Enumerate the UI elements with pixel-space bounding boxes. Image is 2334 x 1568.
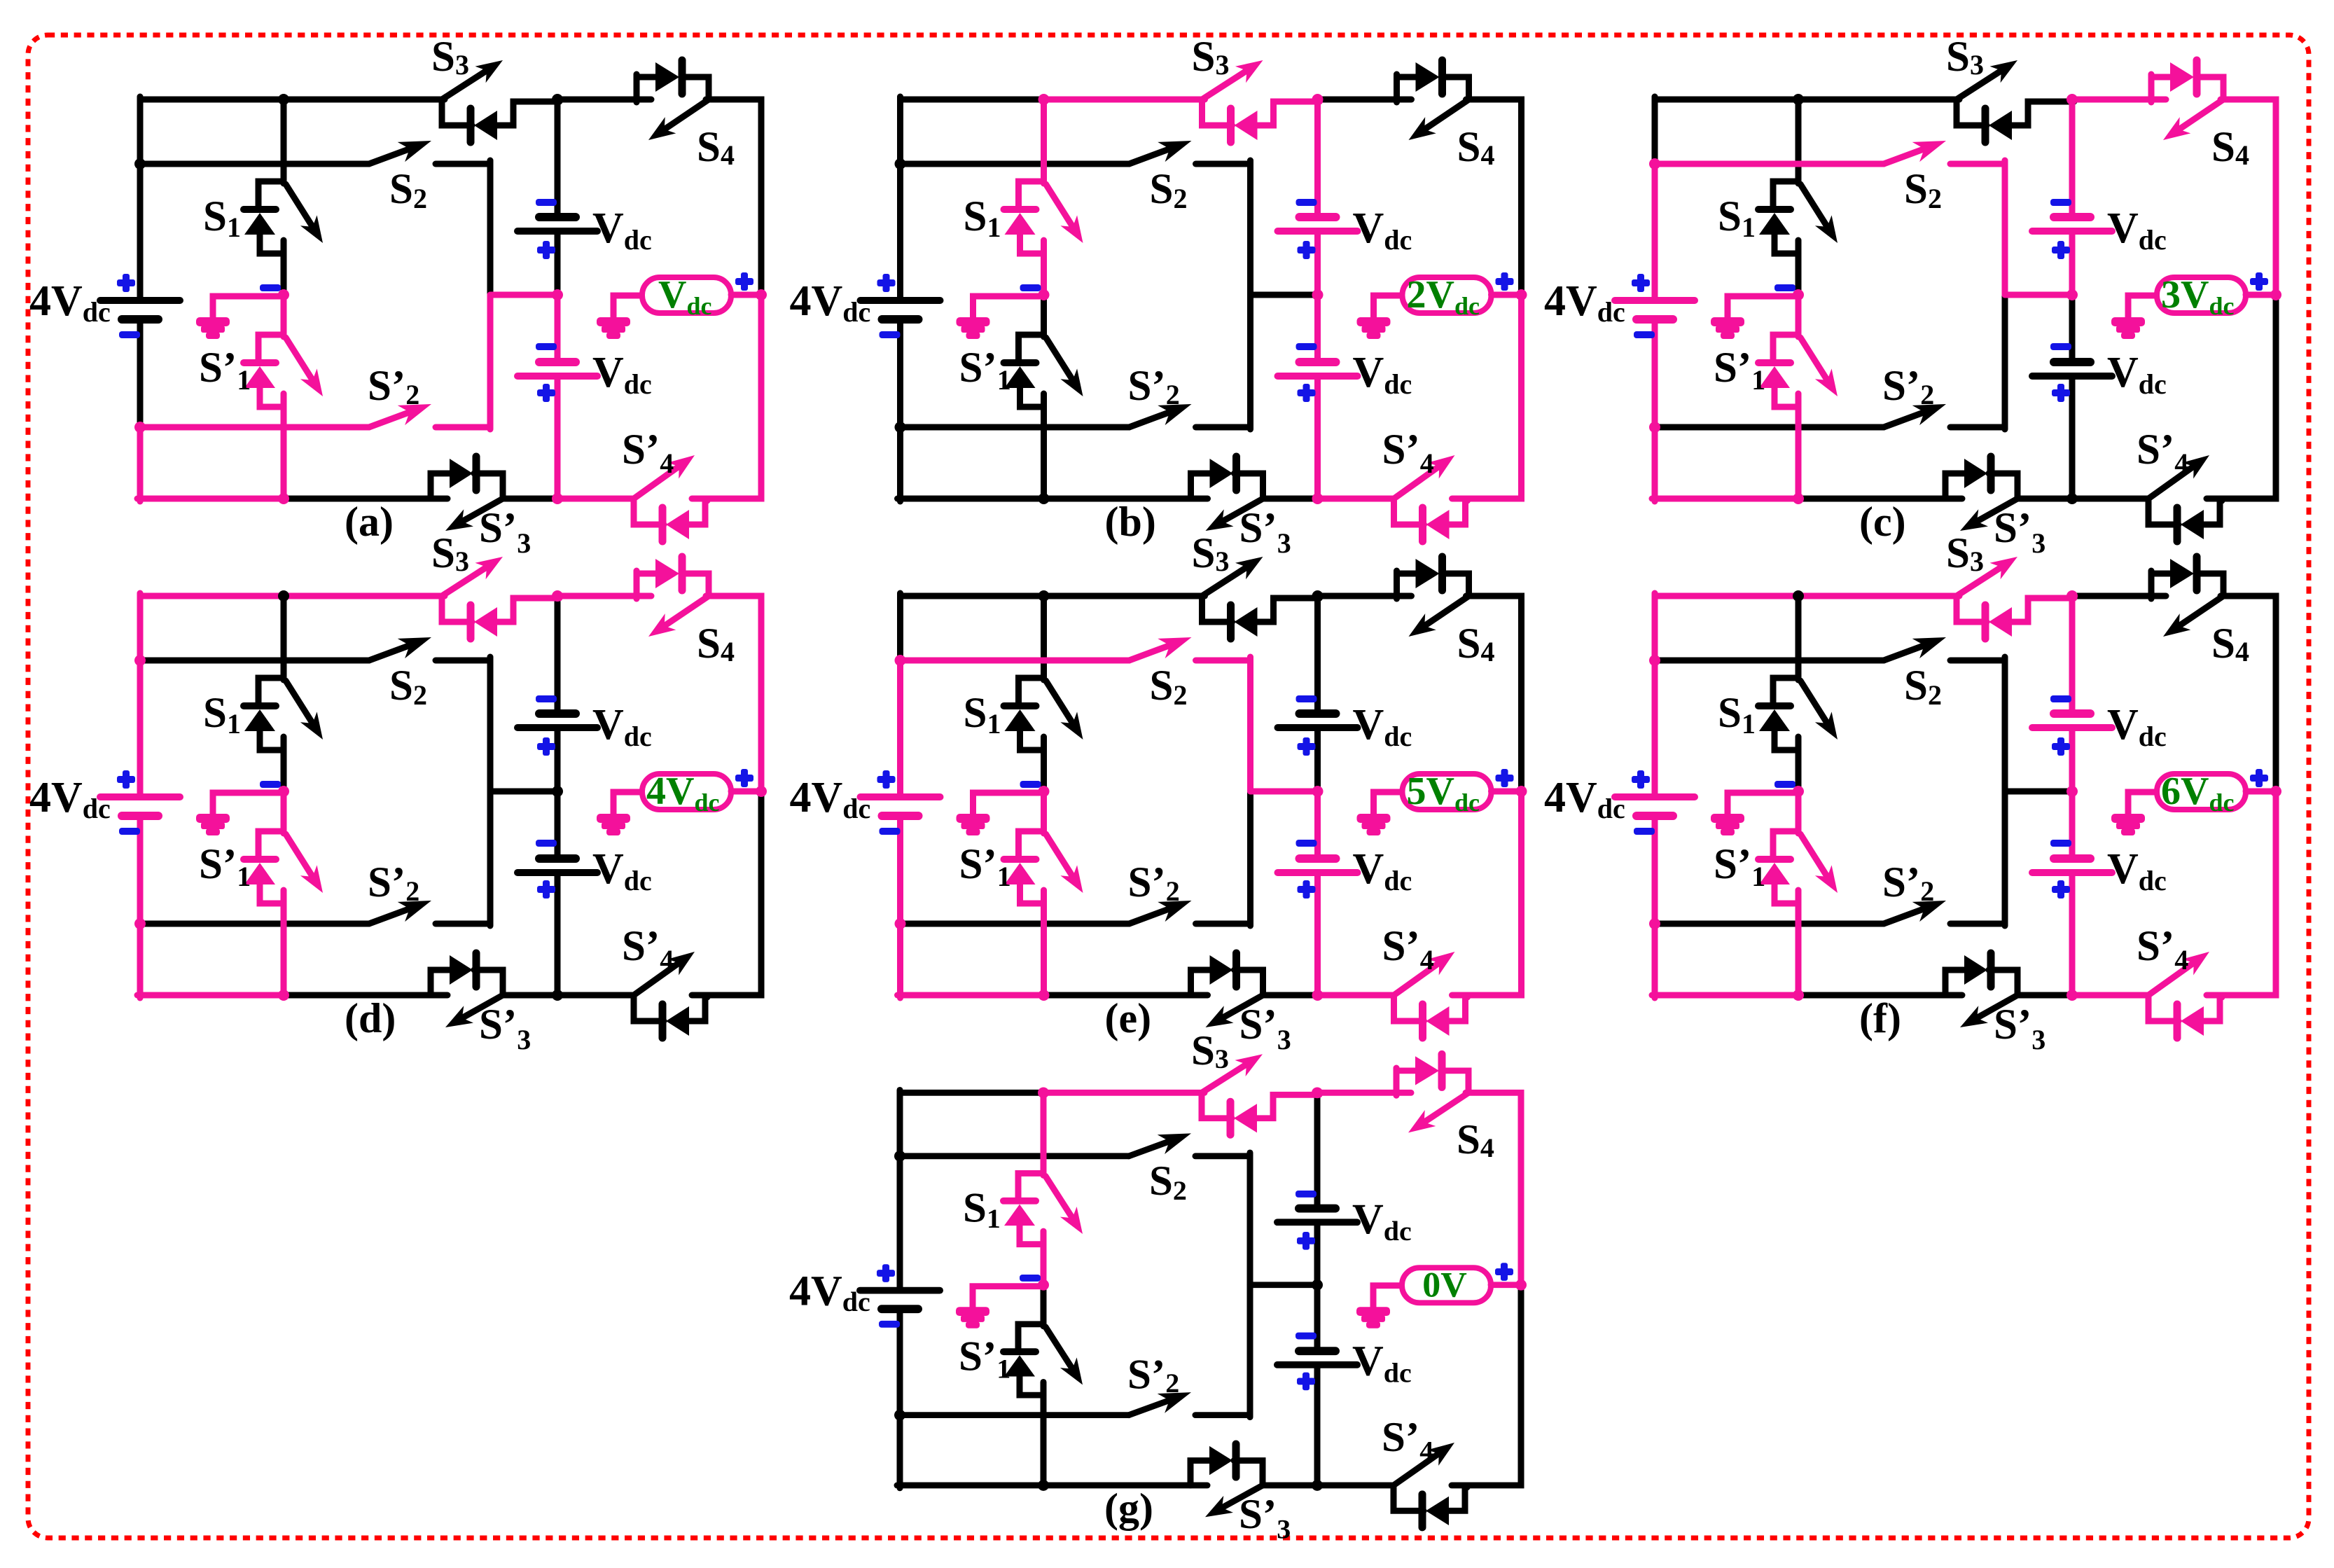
wire battery to S'2 rail (c) bbox=[1652, 319, 1658, 427]
wire bottom rail mid (g) bbox=[1043, 1482, 1207, 1488]
wire bottom rail right (b) bbox=[1318, 496, 1394, 502]
wire right rail top (d) bbox=[706, 596, 761, 791]
node output minus (a) bbox=[278, 289, 289, 300]
wire node to ground (a) bbox=[213, 296, 284, 318]
minus marker lower Vdc (f) bbox=[2050, 840, 2071, 847]
node bottom S'1-column junction (a) bbox=[278, 493, 289, 504]
transistor S1 (d) bbox=[244, 678, 323, 750]
wire S'2 contact rise (g) bbox=[1247, 1285, 1253, 1417]
minus marker battery 4Vdc (a) bbox=[119, 331, 140, 338]
node S'2 rail left junction (b) bbox=[895, 422, 906, 433]
node bottom S'1-column junction (f) bbox=[1793, 990, 1804, 1001]
wire lower battery to bottom (d) bbox=[555, 873, 561, 995]
node mid battery junction (b) bbox=[1312, 289, 1324, 300]
switch S'4 (g) bbox=[1394, 1443, 1467, 1527]
switch S'4 (e) bbox=[1394, 952, 1468, 1038]
wire S'3 to battery column (a) bbox=[503, 496, 557, 502]
wire node to ground (b) bbox=[973, 296, 1044, 318]
node S'2 rail left junction (c) bbox=[1649, 422, 1660, 433]
minus marker upper Vdc (g) bbox=[1295, 1191, 1317, 1198]
wire S2 contact drop (e) bbox=[1247, 657, 1253, 791]
battery Vdc upper (b) bbox=[1278, 217, 1358, 231]
wire left rail lower (d) bbox=[137, 924, 144, 998]
wire battery to S'2 rail (g) bbox=[897, 1309, 903, 1415]
switch S'3 (b) bbox=[1191, 457, 1263, 531]
node output plus (a) bbox=[756, 289, 767, 300]
wire bottom rail left (c) bbox=[1652, 496, 1798, 502]
wire upper battery to mid node (c) bbox=[2069, 231, 2076, 295]
wire right rail bottom (b) bbox=[1452, 295, 1522, 499]
node output plus (b) bbox=[1516, 289, 1527, 300]
node bottom S'1-column junction (c) bbox=[1793, 493, 1804, 504]
wire left rail lower (e) bbox=[897, 924, 903, 998]
wire upper battery to mid node (d) bbox=[555, 728, 561, 791]
svg-text:0V: 0V bbox=[1422, 1265, 1467, 1305]
wire mid node to lower battery (g) bbox=[1314, 1285, 1321, 1351]
svg-text:(c): (c) bbox=[1859, 499, 1906, 545]
wire left rail lower (c) bbox=[1652, 427, 1658, 501]
wire bottom rail left (d) bbox=[137, 992, 284, 999]
plus marker battery 4Vdc (d) bbox=[117, 776, 135, 783]
switch S'2 (b) bbox=[901, 404, 1251, 427]
svg-text:(e): (e) bbox=[1105, 995, 1152, 1041]
switch S'3 (e) bbox=[1191, 953, 1263, 1027]
node top S1-column junction (a) bbox=[278, 94, 289, 105]
node S2 rail left junction (b) bbox=[895, 158, 906, 169]
plus marker lower Vdc (b) bbox=[1298, 389, 1316, 396]
wire upper battery to mid node (g) bbox=[1314, 1222, 1321, 1284]
transistor S'1 (b) bbox=[1004, 335, 1083, 407]
plus marker upper Vdc (d) bbox=[537, 743, 555, 750]
wire bottom rail left (b) bbox=[898, 496, 1044, 502]
wire left rail to battery (d) bbox=[137, 660, 144, 797]
wire battery column upper (a) bbox=[555, 99, 561, 217]
wire lower battery to bottom (g) bbox=[1314, 1365, 1321, 1485]
output voltage box 4Vdc (d) bbox=[642, 770, 731, 817]
battery 4Vdc (a) bbox=[100, 300, 180, 319]
plus marker battery 4Vdc (c) bbox=[1632, 279, 1650, 286]
plus marker output (e) bbox=[1496, 775, 1514, 782]
wire battery column upper (b) bbox=[1314, 99, 1321, 217]
wire mid node to lower battery (e) bbox=[1314, 791, 1321, 859]
wire battery to S'2 rail (d) bbox=[137, 816, 144, 924]
wire right rail top (b) bbox=[1466, 99, 1522, 295]
switch S'4 (b) bbox=[1394, 455, 1468, 541]
minus marker node (b) bbox=[1020, 284, 1041, 291]
battery Vdc upper (e) bbox=[1278, 714, 1358, 728]
switch S'2 (d) bbox=[140, 901, 490, 924]
switch S'3 (a) bbox=[431, 457, 503, 531]
wire S1 column top (b) bbox=[1041, 99, 1047, 183]
plus marker battery 4Vdc (b) bbox=[877, 279, 896, 286]
switch S2 (g) bbox=[900, 1133, 1250, 1156]
switch S4 (a) bbox=[557, 60, 709, 140]
wire right rail top (a) bbox=[706, 99, 761, 295]
wire S1 to node (g) bbox=[1041, 1244, 1047, 1285]
wire bottom rail left (g) bbox=[897, 1482, 1043, 1488]
minus marker battery 4Vdc (e) bbox=[880, 828, 901, 835]
node bottom S'1-column junction (b) bbox=[1039, 493, 1050, 504]
plus marker battery 4Vdc (a) bbox=[117, 279, 135, 286]
plus marker output (d) bbox=[735, 775, 753, 782]
node output minus (e) bbox=[1039, 786, 1050, 797]
plus marker output (a) bbox=[735, 278, 753, 285]
node mid battery junction (d) bbox=[552, 786, 563, 797]
plus marker battery 4Vdc (f) bbox=[1632, 776, 1650, 783]
switch S2 (f) bbox=[1655, 637, 2005, 660]
wire S2 contact drop (d) bbox=[487, 657, 494, 791]
switch S'2 (c) bbox=[1655, 404, 2005, 427]
battery 4Vdc (d) bbox=[100, 797, 180, 816]
wire bottom rail left (e) bbox=[898, 992, 1044, 999]
battery 4Vdc (g) bbox=[860, 1291, 940, 1310]
wire right rail top (c) bbox=[2221, 99, 2276, 295]
node S'2 rail left junction (f) bbox=[1649, 918, 1660, 929]
wire right rail bottom (a) bbox=[692, 295, 761, 499]
wire battery column upper (c) bbox=[2069, 99, 2076, 217]
plus marker output (c) bbox=[2250, 278, 2268, 285]
ground output (a) bbox=[597, 317, 630, 339]
wire battery to S'2 rail (a) bbox=[137, 319, 144, 427]
wire S'3 to battery column (g) bbox=[1263, 1482, 1317, 1488]
wire S'3 to battery column (f) bbox=[2017, 992, 2072, 999]
minus marker upper Vdc (f) bbox=[2050, 695, 2071, 702]
wire right rail top (e) bbox=[1466, 596, 1522, 791]
wire S1 to node (c) bbox=[1795, 254, 1802, 295]
switch S'4 (d) bbox=[634, 952, 707, 1038]
switch S3 (b) bbox=[1202, 60, 1320, 142]
wire mid node to lower battery (f) bbox=[2069, 791, 2076, 859]
minus marker upper Vdc (c) bbox=[2050, 199, 2071, 206]
wire box to plus node (a) bbox=[731, 292, 761, 298]
wire S'3 to battery column (e) bbox=[1263, 992, 1318, 999]
wire left rail to battery (f) bbox=[1652, 660, 1658, 797]
wire S'1 column top (a) bbox=[281, 295, 287, 337]
wire upper battery to mid node (a) bbox=[555, 231, 561, 295]
switch S4 (d) bbox=[557, 557, 709, 637]
node S2 rail left junction (c) bbox=[1649, 158, 1660, 169]
switch S'3 (g) bbox=[1190, 1444, 1263, 1517]
minus marker upper Vdc (d) bbox=[536, 695, 557, 702]
wire lower battery to bottom (f) bbox=[2069, 873, 2076, 995]
wire mid rail to battery column (a) bbox=[490, 292, 557, 298]
wire bottom rail mid (e) bbox=[1044, 992, 1208, 999]
wire S2 contact drop (f) bbox=[2002, 657, 2008, 791]
node mid battery junction (f) bbox=[2066, 786, 2078, 797]
node bottom battery-column junction (d) bbox=[552, 990, 563, 1001]
wire left rail lower (f) bbox=[1652, 924, 1658, 998]
minus marker node (e) bbox=[1020, 781, 1041, 788]
wire bottom rail mid (b) bbox=[1044, 496, 1208, 502]
node S2 rail left junction (e) bbox=[895, 655, 906, 666]
plus marker battery 4Vdc (e) bbox=[877, 776, 896, 783]
wire mid node to lower battery (c) bbox=[2069, 295, 2076, 362]
switch S2 (d) bbox=[140, 637, 490, 660]
switch S2 (c) bbox=[1655, 141, 2005, 164]
wire top rail left (g) bbox=[900, 1090, 1043, 1096]
battery Vdc upper (d) bbox=[517, 714, 597, 728]
wire bottom rail right (g) bbox=[1317, 1482, 1394, 1488]
wire right rail bottom (g) bbox=[1452, 1285, 1521, 1485]
switch S3 (g) bbox=[1202, 1054, 1319, 1135]
output voltage box 5Vdc (e) bbox=[1403, 770, 1492, 817]
wire box to plus node (c) bbox=[2246, 292, 2276, 298]
wire output box to ground (c) bbox=[2128, 296, 2157, 318]
wire bottom rail right (e) bbox=[1318, 992, 1394, 999]
wire right rail bottom (e) bbox=[1452, 791, 1522, 995]
wire right rail top (f) bbox=[2221, 596, 2276, 791]
switch S'3 (f) bbox=[1945, 953, 2017, 1027]
plus marker lower Vdc (c) bbox=[2052, 389, 2070, 396]
wire mid rail to battery column (d) bbox=[490, 789, 557, 795]
minus marker node (d) bbox=[260, 781, 281, 788]
plus marker battery 4Vdc (g) bbox=[877, 1270, 895, 1277]
wire top rail left (a) bbox=[140, 97, 284, 103]
switch S'4 (c) bbox=[2148, 455, 2222, 541]
wire bottom rail left (f) bbox=[1652, 992, 1798, 999]
wire S'1 column top (e) bbox=[1041, 791, 1047, 833]
wire S2 contact drop (b) bbox=[1247, 160, 1253, 295]
minus marker battery 4Vdc (g) bbox=[879, 1321, 900, 1328]
wire S2 contact drop (c) bbox=[2002, 160, 2008, 295]
node top battery-column junction (d) bbox=[552, 590, 563, 602]
node top battery-column junction (g) bbox=[1312, 1087, 1323, 1098]
wire battery column upper (g) bbox=[1314, 1092, 1321, 1208]
battery 4Vdc (b) bbox=[861, 300, 940, 319]
node bottom battery-column junction (c) bbox=[2066, 493, 2078, 504]
ground left (e) bbox=[957, 814, 990, 835]
node mid battery junction (c) bbox=[2066, 289, 2078, 300]
switch S'2 (f) bbox=[1655, 901, 2005, 924]
wire lower battery to bottom (a) bbox=[555, 376, 561, 499]
minus marker upper Vdc (b) bbox=[1296, 199, 1317, 206]
node S2 rail left junction (f) bbox=[1649, 655, 1660, 666]
wire top rail mid (a) bbox=[284, 97, 445, 103]
node S'2 rail left junction (e) bbox=[895, 918, 906, 929]
ground output (c) bbox=[2111, 317, 2145, 339]
wire S1 column top (a) bbox=[281, 99, 287, 183]
wire mid rail to battery column (f) bbox=[2005, 789, 2072, 795]
wire top rail left (d) bbox=[140, 593, 284, 599]
transistor S1 (g) bbox=[1003, 1173, 1083, 1244]
wire S'1 column top (c) bbox=[1795, 295, 1802, 337]
plus marker upper Vdc (g) bbox=[1297, 1237, 1315, 1244]
wire S'2 contact rise (d) bbox=[487, 791, 494, 926]
wire left rail lower (a) bbox=[137, 427, 144, 501]
minus marker lower Vdc (b) bbox=[1296, 343, 1317, 350]
wire left rail upper (f) bbox=[1652, 593, 1658, 660]
transistor S1 (b) bbox=[1004, 181, 1083, 254]
wire top rail mid (d) bbox=[284, 593, 445, 599]
wire node to ground (d) bbox=[213, 793, 284, 814]
node S2 rail left junction (d) bbox=[134, 655, 146, 666]
wire left rail to battery (c) bbox=[1652, 164, 1658, 300]
wire box to plus node (b) bbox=[1492, 292, 1522, 298]
wire left rail lower (b) bbox=[897, 427, 903, 501]
wire S1 column top (d) bbox=[281, 596, 287, 680]
wire upper battery to mid node (e) bbox=[1314, 728, 1321, 791]
ground output (d) bbox=[597, 814, 630, 835]
wire mid node to lower battery (d) bbox=[555, 791, 561, 859]
wire S'1 to bottom rail (a) bbox=[281, 407, 287, 499]
svg-text:(d): (d) bbox=[345, 995, 396, 1041]
switch S3 (f) bbox=[1957, 557, 2074, 639]
wire mid rail to battery column (b) bbox=[1251, 292, 1318, 298]
wire node to ground (g) bbox=[973, 1286, 1043, 1307]
wire battery to S'2 rail (e) bbox=[897, 816, 903, 924]
ground left (c) bbox=[1711, 317, 1744, 339]
wire mid rail to battery column (e) bbox=[1251, 789, 1318, 795]
node S2 rail left junction (a) bbox=[134, 158, 146, 169]
transistor S'1 (f) bbox=[1758, 831, 1838, 903]
node S2 rail left junction (g) bbox=[894, 1151, 905, 1162]
wire battery column upper (d) bbox=[555, 596, 561, 714]
switch S'2 (a) bbox=[140, 404, 490, 427]
wire top rail mid (g) bbox=[1043, 1090, 1204, 1096]
node output plus (c) bbox=[2270, 289, 2281, 300]
ground output (g) bbox=[1356, 1307, 1390, 1328]
wire S'1 column top (g) bbox=[1041, 1285, 1047, 1326]
battery Vdc upper (c) bbox=[2032, 217, 2112, 231]
battery 4Vdc (c) bbox=[1615, 300, 1695, 319]
node top battery-column junction (f) bbox=[2066, 590, 2078, 602]
wire mid node to lower battery (a) bbox=[555, 295, 561, 362]
wire top rail left (f) bbox=[1655, 593, 1798, 599]
svg-text:(f): (f) bbox=[1859, 995, 1901, 1041]
ground output (b) bbox=[1357, 317, 1391, 339]
wire top rail left (e) bbox=[901, 593, 1044, 599]
switch S2 (b) bbox=[901, 141, 1251, 164]
wire S'2 contact rise (f) bbox=[2002, 791, 2008, 926]
minus marker battery 4Vdc (d) bbox=[119, 828, 140, 835]
node output minus (d) bbox=[278, 786, 289, 797]
wire S'3 to battery column (c) bbox=[2017, 496, 2072, 502]
wire left rail upper (g) bbox=[897, 1090, 903, 1156]
battery Vdc lower (e) bbox=[1278, 859, 1358, 873]
wire top rail mid (f) bbox=[1798, 593, 1959, 599]
node top S1-column junction (e) bbox=[1039, 590, 1050, 602]
switch S'2 (e) bbox=[901, 901, 1251, 924]
node top S1-column junction (g) bbox=[1038, 1087, 1049, 1098]
node output minus (g) bbox=[1038, 1279, 1049, 1291]
node top battery-column junction (a) bbox=[552, 94, 563, 105]
plus marker upper Vdc (c) bbox=[2052, 247, 2070, 254]
wire box to plus node (g) bbox=[1491, 1282, 1521, 1288]
wire node to ground (f) bbox=[1728, 793, 1798, 814]
output voltage box 6Vdc (f) bbox=[2157, 770, 2246, 817]
wire left rail upper (e) bbox=[897, 593, 903, 660]
node top S1-column junction (d) bbox=[278, 590, 289, 602]
wire upper battery to mid node (b) bbox=[1314, 231, 1321, 295]
switch S3 (c) bbox=[1957, 60, 2074, 142]
plus marker lower Vdc (a) bbox=[537, 389, 555, 396]
wire top rail left (c) bbox=[1655, 97, 1798, 103]
node bottom battery-column junction (b) bbox=[1312, 493, 1324, 504]
wire top rail mid (b) bbox=[1044, 97, 1205, 103]
switch S2 (e) bbox=[901, 637, 1251, 660]
battery Vdc lower (a) bbox=[517, 362, 597, 376]
ground left (d) bbox=[196, 814, 230, 835]
battery Vdc lower (c) bbox=[2032, 362, 2112, 376]
minus marker lower Vdc (g) bbox=[1295, 1333, 1317, 1340]
wire left rail to battery (e) bbox=[897, 660, 903, 797]
transistor S'1 (a) bbox=[244, 335, 323, 407]
wire bottom rail mid (d) bbox=[284, 992, 447, 999]
output voltage box 3Vdc (c) bbox=[2157, 273, 2246, 320]
wire S'3 to battery column (d) bbox=[503, 992, 557, 999]
transistor S1 (c) bbox=[1758, 181, 1838, 254]
wire S1 column top (c) bbox=[1795, 99, 1802, 183]
wire left rail lower (g) bbox=[897, 1415, 903, 1488]
wire battery column upper (f) bbox=[2069, 596, 2076, 714]
transistor S'1 (e) bbox=[1004, 831, 1083, 903]
node bottom battery-column junction (f) bbox=[2066, 990, 2078, 1001]
node output plus (d) bbox=[756, 786, 767, 797]
node top battery-column junction (e) bbox=[1312, 590, 1324, 602]
wire S'1 to bottom rail (b) bbox=[1041, 407, 1047, 499]
node S'2 rail left junction (g) bbox=[894, 1410, 905, 1421]
minus marker battery 4Vdc (b) bbox=[880, 331, 901, 338]
wire top rail left (b) bbox=[901, 97, 1044, 103]
node output minus (b) bbox=[1039, 289, 1050, 300]
wire S'1 to bottom rail (f) bbox=[1795, 903, 1802, 995]
minus marker lower Vdc (d) bbox=[536, 840, 557, 847]
wire S'1 column top (d) bbox=[281, 791, 287, 833]
plus marker upper Vdc (f) bbox=[2052, 743, 2070, 750]
node output plus (e) bbox=[1516, 786, 1527, 797]
ground output (e) bbox=[1357, 814, 1391, 835]
wire lower battery to bottom (e) bbox=[1314, 873, 1321, 995]
wire left rail upper (c) bbox=[1652, 97, 1658, 164]
node top S1-column junction (c) bbox=[1793, 94, 1804, 105]
plus marker lower Vdc (f) bbox=[2052, 886, 2070, 893]
wire lower battery to bottom (c) bbox=[2069, 376, 2076, 499]
wire S2 contact drop (a) bbox=[487, 160, 494, 295]
wire left rail upper (a) bbox=[137, 97, 144, 164]
node output plus (g) bbox=[1515, 1279, 1527, 1291]
wire mid node to lower battery (b) bbox=[1314, 295, 1321, 362]
wire S'1 to bottom rail (g) bbox=[1041, 1395, 1047, 1485]
wire output box to ground (d) bbox=[613, 792, 642, 814]
plus marker lower Vdc (e) bbox=[1298, 886, 1316, 893]
node S'2 rail left junction (a) bbox=[134, 422, 146, 433]
battery 4Vdc (e) bbox=[861, 797, 940, 816]
minus marker node (f) bbox=[1774, 781, 1795, 788]
minus marker battery 4Vdc (c) bbox=[1634, 331, 1655, 338]
ground output (f) bbox=[2111, 814, 2145, 835]
plus marker output (f) bbox=[2250, 775, 2268, 782]
wire bottom rail right (c) bbox=[2072, 496, 2148, 502]
wire S1 to node (e) bbox=[1041, 750, 1047, 791]
switch S4 (g) bbox=[1317, 1054, 1468, 1132]
output voltage box 2Vdc (b) bbox=[1403, 273, 1492, 320]
wire bottom rail mid (f) bbox=[1798, 992, 1962, 999]
plus marker lower Vdc (d) bbox=[537, 886, 555, 893]
wire box to plus node (d) bbox=[731, 789, 761, 795]
output voltage box 0dc (g) bbox=[1402, 1265, 1491, 1305]
wire S2 contact drop (g) bbox=[1247, 1153, 1253, 1285]
wire S1 to node (f) bbox=[1795, 750, 1802, 791]
wire right rail bottom (d) bbox=[692, 791, 761, 995]
plus marker lower Vdc (g) bbox=[1297, 1378, 1315, 1385]
switch S'3 (d) bbox=[431, 953, 503, 1027]
battery Vdc lower (g) bbox=[1277, 1351, 1357, 1365]
wire bottom rail right (d) bbox=[557, 992, 634, 999]
minus marker lower Vdc (e) bbox=[1296, 840, 1317, 847]
switch S2 (a) bbox=[140, 141, 490, 164]
ground left (f) bbox=[1711, 814, 1744, 835]
wire output box to ground (b) bbox=[1374, 296, 1403, 318]
